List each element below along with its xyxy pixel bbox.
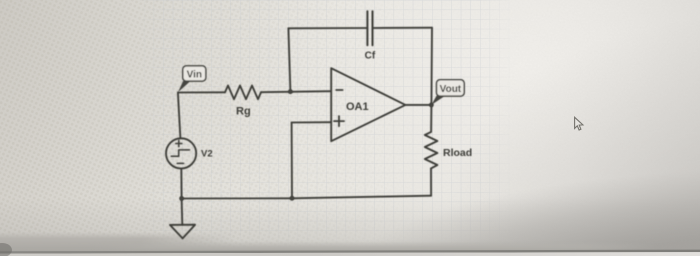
node label Vout box [437,80,465,96]
V2 minus mark [177,162,183,164]
resistor Rg [225,86,261,100]
wire Vin node down to V2 [178,93,181,139]
wire Rg to inverting input [261,91,331,92]
wire top horizontal left (to Cf left plate) [288,27,367,29]
wire Rload bottom [430,168,432,195]
wire output node down to Rload [430,105,432,132]
op-amp OA1 body [331,68,405,141]
wire Vin node to Rg [178,91,225,93]
wire top-left vertical (Cf left to inverting node) [288,28,290,91]
capacitor Cf [367,11,372,45]
junction inverting node [288,89,293,94]
svg-text:OA1: OA1 [346,101,369,113]
svg-text:Vin: Vin [187,69,202,80]
svg-text:Rload: Rload [443,147,472,159]
V2 plus mark [176,140,182,146]
junction output node [429,103,434,108]
node label Vin box [183,66,206,81]
wire non-inverting input horizontal [292,121,332,123]
junction bottom rail / V+ branch [290,196,295,201]
wire V2 bottom [180,169,182,199]
wire ground stem [181,199,184,225]
svg-text:Rg: Rg [236,106,251,118]
voltage source V2 [166,138,196,168]
op-amp plus pin mark [334,116,344,126]
op-amp minus pin mark [336,89,342,91]
wire non-inverting input vertical [291,123,293,199]
resistor Rload [425,132,438,169]
wire op-amp output [405,104,431,106]
svg-text:V2: V2 [201,149,213,160]
ground [170,225,195,239]
wire right vertical (Cf right to output node) [430,28,433,105]
svg-text:Vout: Vout [440,84,462,95]
wire bottom rail [182,196,432,199]
svg-text:Cf: Cf [365,51,376,62]
junction bottom rail / ground [179,196,184,201]
node label Vout flag [431,96,444,105]
node label Vin flag [178,81,191,92]
mouse cursor [575,117,583,130]
wire top horizontal right (from Cf right plate) [372,27,432,29]
V2 step waveform mark [171,150,189,156]
